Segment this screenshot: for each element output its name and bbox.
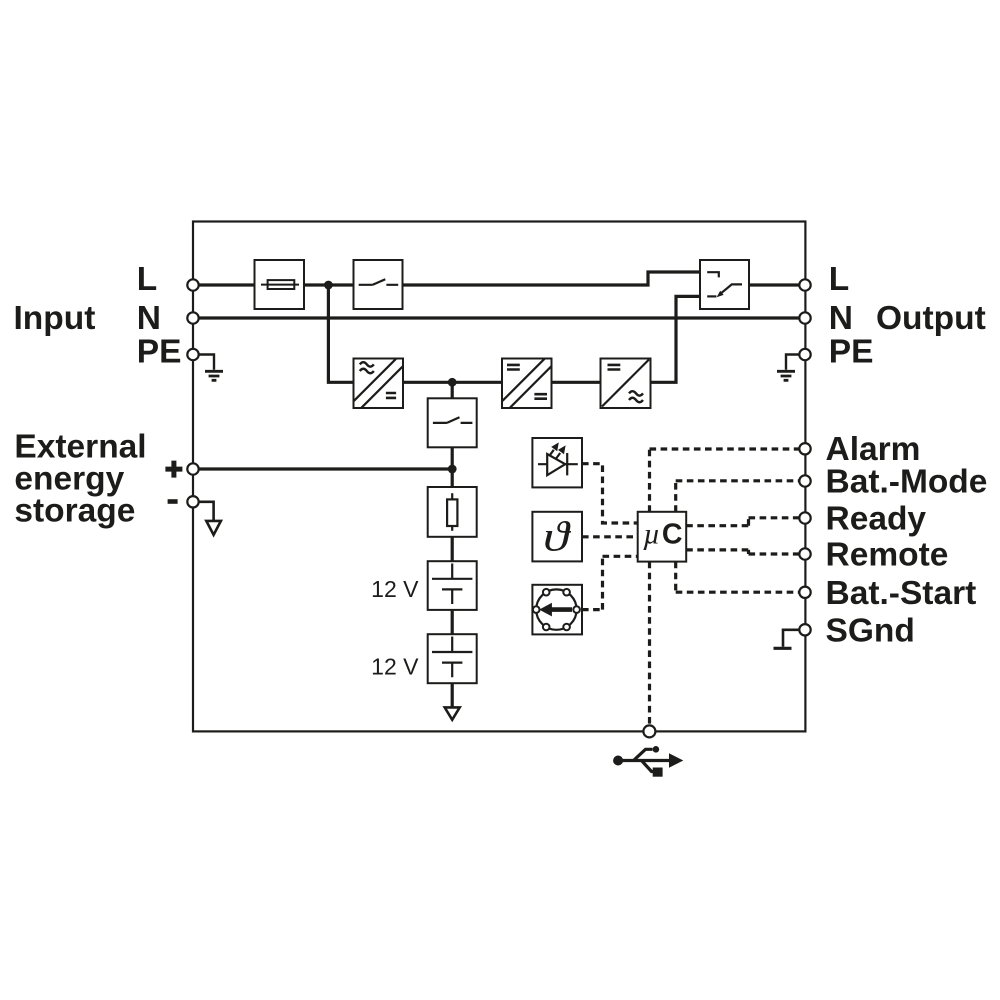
dashed signal LED to µC [582,464,638,523]
AC/DC converter box [354,359,404,409]
battery B2 box [428,634,477,683]
battery fuse box [428,487,477,537]
svg-text:L: L [829,261,849,298]
switch S1 box [354,260,403,309]
earth ground symbol left [205,371,223,380]
battery switch symbol [433,417,473,423]
wire N [193,316,805,319]
svg-text:SGnd: SGnd [826,612,915,649]
svg-text:PE: PE [829,334,874,371]
svg-text:Remote: Remote [826,537,949,574]
fuse F1 symbol [261,280,299,289]
USB symbol [613,746,683,777]
terminal Ready [799,512,810,523]
svg-text:Input: Input [14,300,96,337]
dashed signal µC to Remote terminal [686,550,799,554]
DC/AC inverter box [601,359,651,409]
dashed signal rotary selector to µC [582,556,638,609]
rotary selector symbol [533,589,580,630]
DC/DC converter symbol [503,359,552,408]
battery fuse symbol [447,493,457,531]
microcontroller µC box [638,512,687,562]
transfer relay box [700,260,749,309]
battery B2 cell symbol [432,637,472,678]
terminal L output [799,279,810,290]
wire L input (with jog to transfer relay) [193,272,700,285]
svg-text:storage: storage [14,493,135,530]
minus reference arrow (open triangle down) [206,521,221,535]
AC/DC converter symbol [354,359,403,408]
earth ground symbol right [777,371,795,380]
wire from node A down to AC/DC converter [328,285,353,382]
junction node C [448,465,457,474]
dashed signal µC to Bat.-Mode terminal [676,481,800,512]
dashed signal temperature sensor to µC [582,535,638,538]
wire AC/DC to DC/DC [403,381,502,384]
wire battery fuse to battery B1 [451,537,454,561]
svg-text:Ready: Ready [826,501,927,538]
svg-text:L: L [137,261,157,298]
terminal + external storage [187,463,198,474]
wire DC/DC to DC/AC [552,381,601,384]
plus sign at + terminal [165,461,182,478]
terminal N output [799,312,810,323]
DC/DC converter box [502,359,552,409]
terminal Bat.-Start [799,587,810,598]
battery B1 box [428,561,477,610]
terminal - external storage [187,496,198,507]
DC/AC inverter symbol [602,360,649,407]
enclosure outline [193,222,805,732]
battery switch box [428,398,477,447]
junction node A [324,281,333,290]
terminal Alarm [799,443,810,454]
signal ground bar SGnd [774,647,792,650]
svg-text:Bat.-Mode: Bat.-Mode [826,464,988,501]
dashed signal µC to Bat.-Start terminal [676,562,800,593]
wire DC/AC inverter to transfer relay [651,296,701,382]
dashed signal µC to Alarm terminal [650,449,800,512]
terminal PE output [799,349,810,360]
switch S1 symbol [359,279,399,285]
svg-text:PE: PE [137,334,182,371]
svg-text:12 V: 12 V [371,654,419,680]
junction node B [448,378,457,387]
dashed signal µC to USB node [648,562,651,725]
terminal PE input [187,349,198,360]
wire battery switch to battery fuse through node C [451,447,454,487]
fuse F1 box [255,260,305,309]
wire battery B2 to reference arrow [451,683,454,707]
temperature sensor box [532,512,582,562]
minus sign at - terminal [168,499,178,504]
wire SGnd terminal to signal ground [783,630,805,647]
wire battery B1 to battery B2 [451,610,454,634]
svg-text:Alarm: Alarm [826,431,921,468]
svg-text:N: N [829,300,853,337]
transfer relay symbol [707,272,742,297]
wire node B down to battery switch [451,382,454,398]
wire + terminal to node C [193,467,452,470]
svg-text:Output: Output [876,300,986,337]
terminal N input [187,312,198,323]
USB node on enclosure [643,725,655,737]
battery B1 cell symbol [432,564,472,605]
terminal Remote [799,548,810,559]
svg-text:12 V: 12 V [371,576,419,602]
svg-text:ϑ: ϑ [543,514,572,560]
rotary selector box [532,585,582,635]
terminal Bat.-Mode [799,475,810,486]
svg-text:µC: µC [643,518,682,551]
LED indicator symbol [538,442,578,475]
wire PE output to earth ground [786,355,805,370]
terminal SGnd [799,624,810,635]
LED indicator box [532,438,582,487]
svg-text:Bat.-Start: Bat.-Start [826,575,977,612]
svg-text:N: N [137,300,161,337]
wire - terminal to reference arrow [193,502,214,521]
wire L output [749,283,805,286]
dashed signal µC to Ready terminal [686,518,799,526]
wire PE input to earth ground [193,355,214,370]
battery chain reference arrow (open triangle down) [445,707,460,719]
terminal L input [187,279,198,290]
